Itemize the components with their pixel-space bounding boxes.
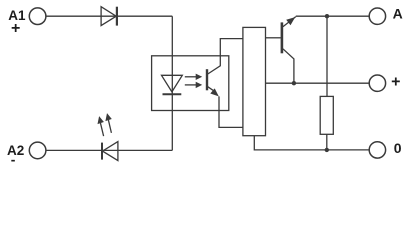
svg-text:A2: A2 xyxy=(7,143,24,158)
svg-text:+: + xyxy=(391,74,400,91)
svg-text:-: - xyxy=(11,152,16,168)
svg-text:0: 0 xyxy=(394,140,402,156)
svg-text:+: + xyxy=(11,20,20,37)
svg-text:A: A xyxy=(393,6,403,22)
